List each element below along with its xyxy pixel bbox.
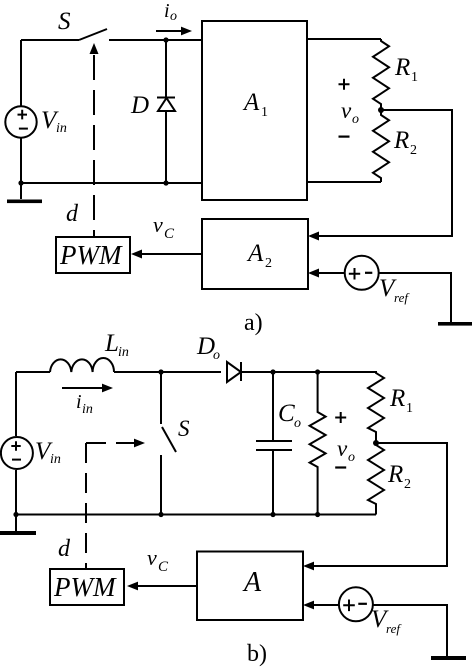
arrow lower input A b	[303, 601, 314, 610]
wire left rail a	[20, 40, 22, 183]
arrow into PWM b	[127, 582, 138, 591]
svg-text:D: D	[130, 92, 149, 119]
svg-text:A: A	[242, 89, 260, 116]
wire top-left b	[16, 371, 50, 373]
arrow control a	[90, 43, 99, 54]
wire node to A2 input a	[319, 110, 452, 236]
label plus in Vref b	[343, 600, 355, 612]
svg-text:in: in	[118, 345, 129, 360]
label minus in Vin b	[12, 459, 21, 461]
label plus b	[335, 412, 346, 423]
wire bottom b	[16, 514, 376, 516]
arrow upper input A2	[308, 232, 319, 241]
svg-text:o: o	[213, 348, 220, 363]
arrow upper input A b	[303, 562, 314, 571]
svg-text:o: o	[348, 450, 355, 465]
svg-text:R: R	[393, 127, 409, 154]
node diode bottom a	[163, 180, 168, 185]
block A2	[202, 219, 308, 289]
wire A2 to PWM a	[141, 253, 202, 255]
svg-text:v: v	[341, 98, 352, 123]
wire inductor to diode b	[114, 371, 221, 373]
svg-text:A: A	[246, 240, 264, 267]
svg-text:o: o	[352, 112, 359, 127]
svg-text:PWM: PWM	[53, 572, 117, 602]
resistor R1 b	[368, 372, 384, 443]
arrow lower input A2	[308, 269, 319, 278]
block A1	[202, 21, 307, 200]
arrow control b	[134, 439, 145, 448]
arrow io a	[156, 30, 182, 32]
arrow into PWM a	[131, 250, 142, 259]
svg-text:b): b)	[247, 641, 267, 667]
svg-text:d: d	[66, 201, 79, 227]
node ground a	[18, 180, 23, 185]
label minus in Vref a	[365, 272, 372, 274]
svg-text:PWM: PWM	[59, 240, 123, 270]
svg-text:v: v	[147, 545, 157, 570]
svg-text:R: R	[394, 54, 410, 81]
node divider a	[378, 107, 384, 113]
svg-text:C: C	[278, 400, 295, 427]
svg-text:1: 1	[406, 401, 413, 416]
svg-text:o: o	[170, 9, 177, 24]
svg-text:2: 2	[404, 477, 411, 492]
node bottom left b	[13, 512, 18, 517]
svg-text:d: d	[58, 536, 71, 562]
label minus in Vin a	[19, 128, 28, 130]
node load bottom b	[315, 512, 320, 517]
svg-text:A: A	[242, 567, 262, 598]
switch S a	[79, 29, 107, 40]
pwm box a	[56, 237, 130, 273]
source Vref a	[345, 256, 379, 290]
wire A to PWM b	[138, 585, 197, 587]
wire A1 to R1	[307, 38, 381, 40]
node switch bottom b	[158, 512, 163, 517]
source Vin a	[5, 106, 36, 137]
label minus a	[339, 136, 350, 138]
svg-text:v: v	[153, 212, 163, 237]
svg-text:R: R	[387, 461, 403, 488]
svg-text:in: in	[50, 452, 61, 467]
dashed control line b	[85, 443, 87, 569]
wire bottom left a	[21, 182, 202, 184]
wire top a	[21, 39, 202, 41]
diode Do b	[227, 362, 241, 382]
node Co bottom b	[270, 512, 275, 517]
resistor R1 a	[373, 39, 389, 110]
source Vin b	[1, 437, 33, 469]
resistor R2 b	[368, 443, 384, 515]
svg-text:i: i	[76, 391, 82, 413]
svg-text:a): a)	[244, 310, 263, 336]
svg-text:2: 2	[410, 143, 417, 158]
node switch-diode a	[163, 37, 168, 42]
svg-text:L: L	[104, 330, 119, 357]
label plus in Vin b	[11, 441, 20, 450]
wire left rail b	[15, 372, 17, 515]
svg-text:C: C	[158, 559, 169, 575]
dashed control line a	[93, 55, 95, 237]
inductor Lin	[50, 358, 114, 372]
label minus b	[335, 466, 346, 468]
node divider b	[373, 440, 379, 446]
node Co top b	[270, 369, 275, 374]
node switch top b	[158, 369, 163, 374]
load resistor b	[310, 372, 326, 515]
svg-text:v: v	[337, 436, 348, 461]
ground b left	[15, 515, 17, 531]
ground a left	[20, 183, 22, 199]
wire Vref to A2	[319, 272, 345, 274]
wire bottom right a	[307, 181, 381, 183]
svg-text:i: i	[164, 0, 170, 22]
ground b right	[431, 656, 466, 660]
label plus in Vref a	[349, 268, 360, 280]
svg-text:o: o	[294, 416, 301, 431]
svg-text:in: in	[56, 121, 67, 136]
capacitor Co	[256, 372, 292, 515]
svg-text:ref: ref	[394, 290, 410, 305]
diode D a	[157, 40, 175, 183]
label plus in Vin a	[18, 110, 28, 120]
ground a right	[438, 322, 472, 326]
source Vref b	[339, 587, 373, 621]
pwm box b	[50, 569, 124, 605]
svg-text:S: S	[58, 8, 71, 35]
wire Vref to A b	[314, 604, 339, 606]
label minus in Vref b	[358, 603, 367, 605]
svg-text:1: 1	[261, 105, 268, 120]
svg-text:in: in	[82, 402, 93, 417]
block A b	[197, 552, 303, 621]
resistor R2 a	[373, 110, 389, 182]
svg-text:2: 2	[265, 256, 272, 271]
svg-text:R: R	[389, 385, 405, 412]
switch S b	[161, 372, 176, 515]
svg-text:C: C	[164, 226, 175, 242]
wire Vref to ground b	[373, 605, 447, 656]
label plus a	[339, 79, 350, 90]
svg-text:S: S	[178, 416, 190, 441]
svg-text:ref: ref	[386, 621, 402, 636]
wire Vref to ground a	[379, 273, 451, 322]
node load top b	[315, 369, 320, 374]
arrow iin b	[62, 387, 103, 389]
svg-text:1: 1	[411, 70, 418, 85]
wire node to A input b	[314, 443, 447, 566]
